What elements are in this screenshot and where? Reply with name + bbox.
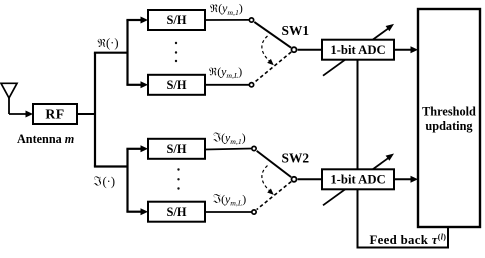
svg-text:S/H: S/H	[167, 142, 187, 156]
svg-text:Feed back τ(l): Feed back τ(l)	[370, 233, 447, 247]
svg-text:SW1: SW1	[282, 23, 310, 38]
svg-text:1-bit ADC: 1-bit ADC	[330, 43, 385, 57]
svg-text:1-bit ADC: 1-bit ADC	[330, 173, 385, 187]
svg-text:(·): (·)	[106, 36, 119, 50]
svg-text:updating: updating	[425, 119, 473, 133]
svg-text:S/H: S/H	[167, 205, 187, 219]
svg-text:Antenna m: Antenna m	[17, 132, 74, 146]
svg-text:S/H: S/H	[167, 78, 187, 92]
svg-text:S/H: S/H	[167, 13, 187, 27]
svg-text:RF: RF	[45, 106, 64, 121]
svg-text:Threshold: Threshold	[422, 105, 476, 119]
svg-text:SW2: SW2	[282, 151, 310, 166]
svg-text:(·): (·)	[103, 175, 116, 189]
